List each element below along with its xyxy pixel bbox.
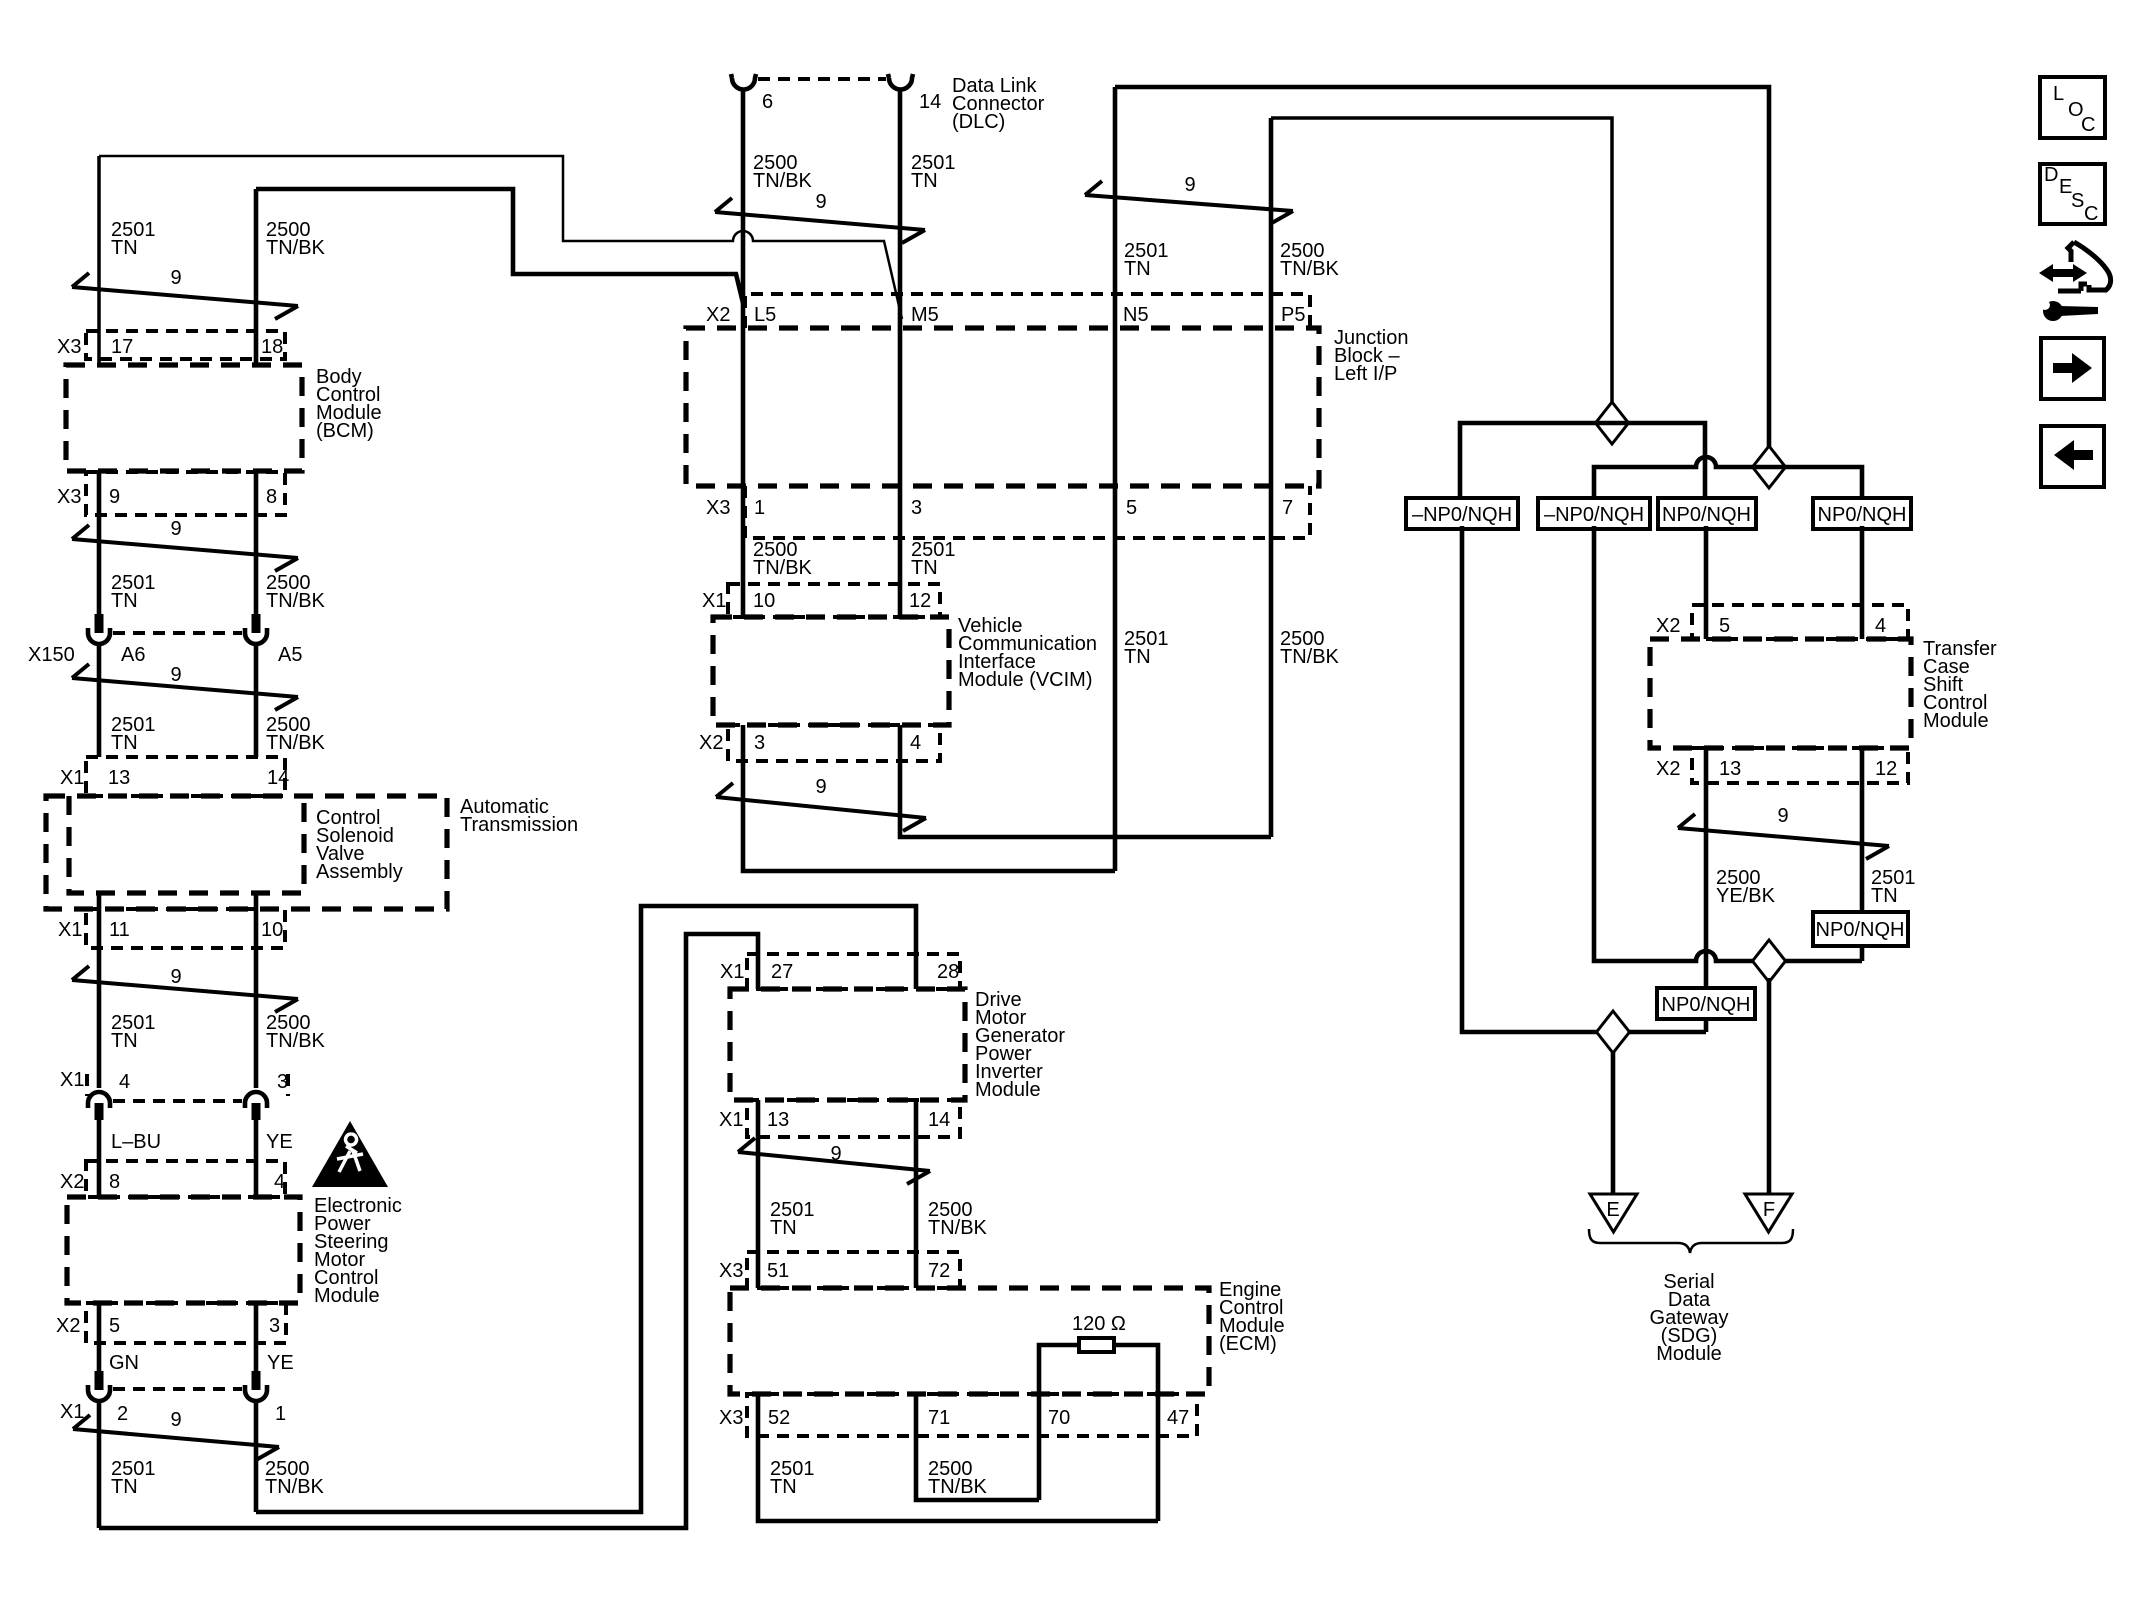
svg-text:5: 5 xyxy=(1126,497,1137,519)
svg-text:X3: X3 xyxy=(706,497,730,519)
svg-text:(DLC): (DLC) xyxy=(952,111,1005,133)
svg-text:72: 72 xyxy=(928,1260,950,1282)
svg-text:TN: TN xyxy=(1124,258,1151,280)
svg-text:4: 4 xyxy=(274,1171,285,1193)
svg-text:TN/BK: TN/BK xyxy=(753,557,813,579)
svg-text:9: 9 xyxy=(170,518,181,540)
svg-text:TN: TN xyxy=(911,557,938,579)
svg-text:4: 4 xyxy=(119,1071,130,1093)
svg-text:D: D xyxy=(2044,164,2058,186)
svg-text:X2: X2 xyxy=(699,732,723,754)
svg-text:TN: TN xyxy=(770,1476,797,1498)
svg-text:NP0/NQH: NP0/NQH xyxy=(1818,504,1907,526)
svg-text:YE/BK: YE/BK xyxy=(1716,885,1776,907)
svg-text:8: 8 xyxy=(109,1171,120,1193)
svg-text:X3: X3 xyxy=(57,486,81,508)
svg-text:L–BU: L–BU xyxy=(111,1131,161,1153)
svg-text:F: F xyxy=(1763,1199,1775,1221)
svg-text:28: 28 xyxy=(937,961,959,983)
svg-text:4: 4 xyxy=(910,732,921,754)
svg-text:3: 3 xyxy=(754,732,765,754)
svg-text:9: 9 xyxy=(1184,174,1195,196)
svg-text:X1: X1 xyxy=(60,1401,84,1423)
svg-text:X1: X1 xyxy=(58,919,82,941)
svg-text:3: 3 xyxy=(269,1315,280,1337)
svg-text:X2: X2 xyxy=(1656,758,1680,780)
svg-text:6: 6 xyxy=(762,91,773,113)
svg-text:X3: X3 xyxy=(57,336,81,358)
svg-text:12: 12 xyxy=(909,590,931,612)
svg-text:X2: X2 xyxy=(60,1171,84,1193)
svg-text:47: 47 xyxy=(1167,1407,1189,1429)
svg-text:9: 9 xyxy=(109,486,120,508)
svg-text:X1: X1 xyxy=(60,1069,84,1091)
svg-text:–NP0/NQH: –NP0/NQH xyxy=(1544,504,1644,526)
svg-text:9: 9 xyxy=(170,966,181,988)
svg-text:NP0/NQH: NP0/NQH xyxy=(1816,919,1905,941)
svg-text:TN: TN xyxy=(111,1476,138,1498)
svg-text:YE: YE xyxy=(267,1352,294,1374)
svg-text:TN/BK: TN/BK xyxy=(1280,646,1340,668)
svg-text:N5: N5 xyxy=(1123,304,1149,326)
svg-text:GN: GN xyxy=(109,1352,139,1374)
svg-text:A5: A5 xyxy=(278,644,302,666)
svg-text:TN/BK: TN/BK xyxy=(753,170,813,192)
svg-text:5: 5 xyxy=(1719,615,1730,637)
svg-text:4: 4 xyxy=(1875,615,1886,637)
svg-text:YE: YE xyxy=(266,1131,293,1153)
svg-text:5: 5 xyxy=(109,1315,120,1337)
svg-text:X150: X150 xyxy=(28,644,75,666)
svg-text:9: 9 xyxy=(170,267,181,289)
svg-text:12: 12 xyxy=(1875,758,1897,780)
svg-text:Module (VCIM): Module (VCIM) xyxy=(958,669,1092,691)
svg-text:C: C xyxy=(2084,203,2098,225)
svg-text:TN: TN xyxy=(111,237,138,259)
svg-text:9: 9 xyxy=(170,664,181,686)
svg-text:Assembly: Assembly xyxy=(316,861,403,883)
svg-text:13: 13 xyxy=(108,767,130,789)
svg-text:120 Ω: 120 Ω xyxy=(1072,1313,1126,1335)
svg-text:L: L xyxy=(2053,83,2064,105)
svg-text:TN: TN xyxy=(111,732,138,754)
svg-text:X1: X1 xyxy=(719,1109,743,1131)
svg-text:14: 14 xyxy=(919,91,941,113)
svg-text:17: 17 xyxy=(111,336,133,358)
svg-text:Module: Module xyxy=(314,1285,380,1307)
svg-text:X2: X2 xyxy=(706,304,730,326)
svg-text:TN: TN xyxy=(111,590,138,612)
svg-text:52: 52 xyxy=(768,1407,790,1429)
svg-text:TN/BK: TN/BK xyxy=(266,1030,326,1052)
svg-text:13: 13 xyxy=(1719,758,1741,780)
svg-text:13: 13 xyxy=(767,1109,789,1131)
svg-text:C: C xyxy=(2081,114,2095,136)
svg-text:TN/BK: TN/BK xyxy=(266,237,326,259)
svg-text:Left I/P: Left I/P xyxy=(1334,363,1397,385)
svg-text:14: 14 xyxy=(928,1109,950,1131)
svg-text:TN/BK: TN/BK xyxy=(928,1217,988,1239)
svg-text:1: 1 xyxy=(754,497,765,519)
svg-text:NP0/NQH: NP0/NQH xyxy=(1662,994,1751,1016)
svg-text:E: E xyxy=(1606,1199,1619,1221)
svg-text:8: 8 xyxy=(266,486,277,508)
svg-text:X1: X1 xyxy=(702,590,726,612)
svg-text:(BCM): (BCM) xyxy=(316,420,374,442)
svg-text:9: 9 xyxy=(1777,805,1788,827)
svg-text:TN: TN xyxy=(770,1217,797,1239)
svg-text:X2: X2 xyxy=(1656,615,1680,637)
svg-text:TN: TN xyxy=(1871,885,1898,907)
svg-text:Module: Module xyxy=(975,1079,1041,1101)
svg-text:M5: M5 xyxy=(911,304,939,326)
svg-text:(ECM): (ECM) xyxy=(1219,1333,1277,1355)
svg-text:TN/BK: TN/BK xyxy=(265,1476,325,1498)
svg-text:9: 9 xyxy=(815,776,826,798)
svg-text:X3: X3 xyxy=(719,1407,743,1429)
svg-text:11: 11 xyxy=(109,919,130,941)
svg-text:X1: X1 xyxy=(60,767,84,789)
svg-text:Module: Module xyxy=(1923,710,1989,732)
svg-text:Module: Module xyxy=(1656,1343,1722,1365)
svg-text:S: S xyxy=(2071,190,2084,212)
svg-text:2: 2 xyxy=(117,1403,128,1425)
svg-text:18: 18 xyxy=(261,336,283,358)
svg-text:X2: X2 xyxy=(56,1315,80,1337)
svg-text:TN: TN xyxy=(911,170,938,192)
svg-text:TN/BK: TN/BK xyxy=(1280,258,1340,280)
svg-text:Transmission: Transmission xyxy=(460,814,578,836)
svg-text:–NP0/NQH: –NP0/NQH xyxy=(1412,504,1512,526)
svg-text:TN/BK: TN/BK xyxy=(928,1476,988,1498)
svg-text:10: 10 xyxy=(261,919,283,941)
svg-text:9: 9 xyxy=(815,191,826,213)
svg-text:71: 71 xyxy=(928,1407,950,1429)
svg-text:1: 1 xyxy=(275,1403,286,1425)
svg-text:51: 51 xyxy=(767,1260,789,1282)
svg-text:NP0/NQH: NP0/NQH xyxy=(1662,504,1751,526)
svg-text:TN/BK: TN/BK xyxy=(266,732,326,754)
svg-text:10: 10 xyxy=(753,590,775,612)
svg-text:TN/BK: TN/BK xyxy=(266,590,326,612)
svg-text:A6: A6 xyxy=(121,644,145,666)
svg-text:14: 14 xyxy=(267,767,289,789)
svg-text:3: 3 xyxy=(911,497,922,519)
svg-text:9: 9 xyxy=(830,1143,841,1165)
svg-text:P5: P5 xyxy=(1281,304,1305,326)
svg-text:L5: L5 xyxy=(754,304,776,326)
svg-text:X1: X1 xyxy=(720,961,744,983)
svg-text:TN: TN xyxy=(1124,646,1151,668)
svg-text:TN: TN xyxy=(111,1030,138,1052)
svg-text:70: 70 xyxy=(1048,1407,1070,1429)
svg-text:7: 7 xyxy=(1282,497,1293,519)
svg-text:9: 9 xyxy=(170,1409,181,1431)
svg-text:27: 27 xyxy=(771,961,793,983)
svg-text:X3: X3 xyxy=(719,1260,743,1282)
